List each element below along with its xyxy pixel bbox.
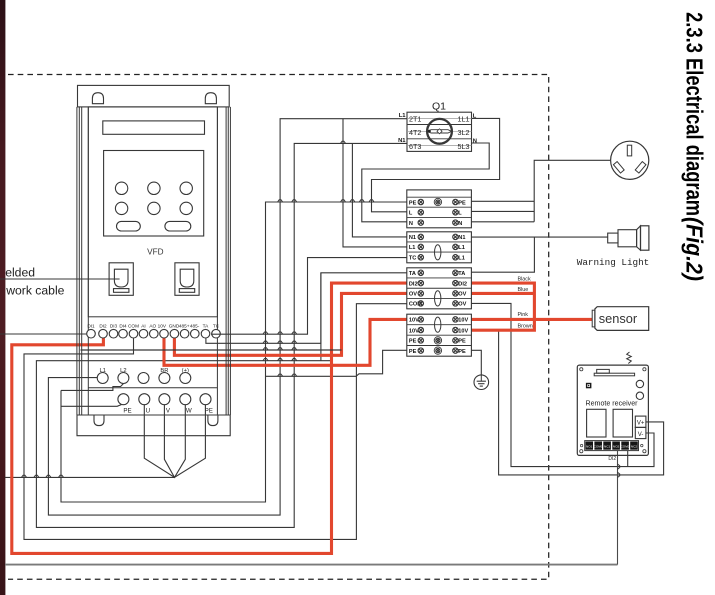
svg-text:VFD: VFD bbox=[147, 247, 163, 256]
svg-text:Remote receiver: Remote receiver bbox=[585, 400, 638, 408]
svg-text:OV: OV bbox=[409, 292, 417, 298]
svg-text:OV: OV bbox=[458, 292, 466, 298]
svg-text:TA: TA bbox=[203, 323, 210, 328]
svg-text:Brown: Brown bbox=[518, 324, 533, 330]
svg-text:NO2: NO2 bbox=[613, 444, 620, 448]
svg-text:L: L bbox=[473, 114, 477, 120]
svg-text:work cable: work cable bbox=[5, 283, 64, 297]
svg-text:485-: 485- bbox=[190, 323, 200, 328]
svg-text:N1: N1 bbox=[458, 235, 465, 241]
svg-text:L1: L1 bbox=[399, 113, 407, 119]
svg-text:PE: PE bbox=[409, 349, 417, 355]
svg-text:Pink: Pink bbox=[518, 312, 529, 318]
svg-text:DI2: DI2 bbox=[409, 281, 418, 287]
svg-text:PE: PE bbox=[458, 349, 466, 355]
svg-text:10V: 10V bbox=[458, 318, 468, 324]
svg-text:L1: L1 bbox=[409, 245, 416, 251]
svg-text:N: N bbox=[409, 221, 413, 227]
svg-text:OV: OV bbox=[458, 302, 466, 308]
svg-text:N: N bbox=[473, 139, 477, 145]
svg-text:N1: N1 bbox=[409, 235, 416, 241]
svg-text:TC: TC bbox=[213, 323, 220, 328]
svg-text:PE: PE bbox=[458, 200, 466, 206]
svg-text:L: L bbox=[409, 211, 413, 217]
svg-text:PE: PE bbox=[409, 200, 417, 206]
svg-text:4T2: 4T2 bbox=[409, 128, 421, 137]
svg-text:TC: TC bbox=[409, 256, 416, 262]
svg-text:Blue: Blue bbox=[518, 287, 529, 293]
svg-text:L1: L1 bbox=[458, 245, 465, 251]
svg-text:10V: 10V bbox=[409, 328, 419, 334]
svg-text:U: U bbox=[146, 408, 150, 415]
svg-text:DI2: DI2 bbox=[458, 281, 467, 287]
svg-text:NC1: NC1 bbox=[604, 444, 610, 448]
svg-text:L1: L1 bbox=[458, 256, 465, 262]
svg-text:(Fig.2): (Fig.2) bbox=[682, 217, 708, 281]
svg-text:PE: PE bbox=[458, 339, 466, 345]
svg-text:N: N bbox=[458, 221, 462, 227]
svg-text:TA: TA bbox=[458, 271, 465, 277]
svg-text:Warning Light: Warning Light bbox=[577, 257, 650, 268]
svg-text:NC2: NC2 bbox=[631, 444, 637, 448]
svg-text:COM2: COM2 bbox=[621, 444, 630, 448]
svg-text:AO: AO bbox=[149, 323, 156, 328]
svg-text:W: W bbox=[186, 408, 192, 415]
svg-text:V-: V- bbox=[638, 432, 644, 438]
svg-text:DI3: DI3 bbox=[110, 323, 118, 328]
svg-text:COM: COM bbox=[128, 323, 139, 328]
svg-text:AI: AI bbox=[141, 323, 145, 328]
svg-text:Black: Black bbox=[518, 277, 531, 283]
svg-text:6T3: 6T3 bbox=[409, 142, 421, 151]
svg-text:DI2: DI2 bbox=[608, 456, 616, 462]
svg-text:NO1: NO1 bbox=[586, 444, 593, 448]
svg-text:V+: V+ bbox=[637, 421, 645, 427]
svg-text:2.3.3 Electrical diagram: 2.3.3 Electrical diagram bbox=[682, 12, 708, 216]
svg-text:DI1: DI1 bbox=[87, 323, 95, 328]
svg-text:485+: 485+ bbox=[179, 323, 190, 328]
svg-text:5L3: 5L3 bbox=[458, 142, 470, 151]
svg-text:10V: 10V bbox=[458, 328, 468, 334]
svg-text:elded: elded bbox=[5, 266, 35, 280]
svg-text:Q1: Q1 bbox=[432, 100, 446, 112]
svg-text:3L2: 3L2 bbox=[458, 128, 470, 137]
svg-text:sensor: sensor bbox=[599, 311, 638, 326]
svg-text:TA: TA bbox=[409, 271, 416, 277]
svg-text:10V: 10V bbox=[158, 323, 167, 328]
svg-text:2T1: 2T1 bbox=[409, 114, 421, 123]
svg-text:DI2: DI2 bbox=[99, 323, 107, 328]
svg-text:PE: PE bbox=[123, 408, 131, 415]
svg-text:PE: PE bbox=[409, 339, 417, 345]
svg-text:DI4: DI4 bbox=[119, 323, 127, 328]
svg-text:N1: N1 bbox=[398, 138, 406, 144]
svg-text:1L1: 1L1 bbox=[458, 114, 470, 123]
svg-text:L: L bbox=[458, 211, 462, 217]
svg-text:COM1: COM1 bbox=[594, 444, 603, 448]
svg-text:10V: 10V bbox=[409, 318, 419, 324]
